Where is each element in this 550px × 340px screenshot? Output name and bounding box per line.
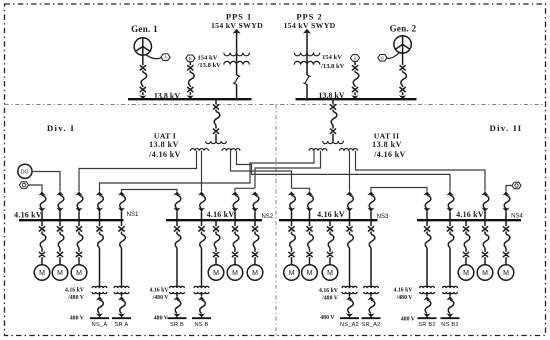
diesel generator DG — [18, 164, 32, 178]
wire small source to NS4 — [506, 186, 512, 192]
svg-text:Div. I: Div. I — [47, 123, 75, 133]
svg-text:4.16 kV: 4.16 kV — [456, 210, 484, 219]
bus 13.8 kV unit 2 — [296, 98, 417, 100]
motor feeder M on NS3 at x=291.5 — [284, 220, 300, 280]
motor feeder M on NS4 at x=466 — [458, 220, 474, 280]
unit aux transformer UAT I drop — [213, 98, 220, 141]
svg-text:SR B: SR B — [170, 322, 184, 328]
bus NS1 4.16 kV — [19, 219, 124, 221]
svg-text:UAT II: UAT II — [374, 131, 400, 140]
incoming breaker drop NS1-1 — [38, 192, 46, 221]
svg-text:480 V: 480 V — [154, 315, 169, 321]
svg-text:4.16 kV: 4.16 kV — [207, 210, 235, 219]
svg-text:13.8 kV: 13.8 kV — [372, 140, 402, 149]
LV transformer feeder SR A — [112, 220, 131, 328]
svg-text:4.16 kV: 4.16 kV — [149, 287, 169, 293]
wire UAT II secondary a to NS1 — [100, 151, 315, 192]
exciter A of G1 — [146, 54, 171, 61]
svg-text:Gen. 1: Gen. 1 — [131, 24, 158, 34]
generator G1 breaker leg to bus — [139, 55, 147, 99]
bus NS4 4.16 kV — [417, 219, 521, 221]
svg-text:480 V: 480 V — [401, 316, 416, 322]
generator G2 breaker leg to bus — [399, 53, 407, 99]
tie wire NS3 to NS4 — [371, 188, 427, 192]
motor feeder M on NS1 at x=60 — [52, 220, 68, 280]
svg-text:4.16 kV: 4.16 kV — [14, 210, 42, 219]
bus NS2 4.16 kV — [166, 219, 262, 221]
wire NS2 standby bracket — [235, 188, 255, 191]
generator G1 — [134, 38, 151, 55]
svg-text:UAT I: UAT I — [154, 131, 176, 140]
wire UAT I secondary a to NS2 — [201, 151, 203, 192]
wire UAT II secondary b to NS3 — [349, 151, 351, 192]
svg-text:13.8 kV: 13.8 kV — [318, 91, 344, 100]
svg-text:NS_A2: NS_A2 — [340, 322, 359, 328]
incoming breaker drop NS1-5 — [118, 192, 126, 221]
motor feeder M on NS4 at x=506 — [498, 220, 514, 280]
incoming breaker drop NS4-2 — [446, 192, 454, 221]
incoming breaker drop NS1-4 — [96, 192, 104, 221]
bus 13.8 kV unit 1 — [128, 98, 252, 100]
svg-text:/13.8 kV: /13.8 kV — [197, 62, 222, 69]
incoming breaker drop NS2-4 — [251, 192, 259, 221]
LV transformer feeder SR B — [168, 220, 187, 328]
incoming breaker drop NS4-3 — [481, 192, 489, 221]
svg-text:4.16 kV: 4.16 kV — [393, 287, 413, 293]
small source M (right) — [512, 182, 521, 189]
LV transformer feeder NS_A2 — [340, 220, 359, 328]
svg-text:B: B — [381, 55, 384, 60]
svg-text:/4.16 kV: /4.16 kV — [373, 150, 406, 159]
incoming breaker drop NS2-2 — [198, 192, 206, 221]
svg-text:/13.8 kV: /13.8 kV — [320, 63, 345, 70]
svg-text:A: A — [164, 55, 167, 60]
wire UAT II secondary a to NS2 — [255, 151, 321, 189]
incoming breaker drop NS3-2 — [306, 192, 314, 221]
svg-text:/480 V: /480 V — [67, 295, 85, 301]
tie wire NS1 to NS2 — [122, 190, 178, 192]
svg-text:SR A: SR A — [115, 322, 129, 328]
LV transformer feeder SR_A2 — [361, 220, 380, 328]
UAT I windings — [191, 141, 241, 151]
main transformer T2 feeder to switchyard — [294, 29, 320, 101]
unit aux transformer UAT II drop — [330, 98, 337, 141]
svg-text:Div. II: Div. II — [489, 123, 522, 133]
svg-text:Gen. 2: Gen. 2 — [390, 24, 417, 34]
svg-text:NS1: NS1 — [127, 212, 139, 218]
incoming breaker drop NS1-2 — [56, 192, 64, 221]
wire UAT I secondary b to NS4 — [237, 151, 451, 192]
svg-text:154 kV: 154 kV — [198, 55, 218, 62]
generator G2 — [394, 36, 411, 53]
svg-text:B: B — [189, 56, 192, 61]
incoming breaker drop NS3-3 — [346, 192, 354, 221]
incoming breaker drop NS3-1 — [288, 192, 296, 221]
motor feeder M on NS2 at x=235 — [227, 220, 243, 280]
wire UAT I secondary b to NS3 — [231, 151, 292, 189]
wire NS3 standby bracket — [292, 188, 310, 191]
LV transformer feeder NS_A — [90, 220, 109, 328]
svg-text:480 V: 480 V — [70, 315, 85, 321]
svg-text:/4.16 kV: /4.16 kV — [148, 150, 181, 159]
svg-text:154 kV SWYD: 154 kV SWYD — [283, 21, 335, 30]
svg-text:13.8 kV: 13.8 kV — [149, 140, 179, 149]
UAT II windings — [309, 141, 358, 151]
incoming breaker drop NS4-4 — [502, 192, 510, 221]
svg-text:/480 V: /480 V — [396, 295, 414, 301]
motor feeder M on NS2 at x=255 — [247, 220, 263, 280]
wire UAT I secondary a to NS1 — [79, 151, 197, 192]
motor feeder M on NS3 at x=330 — [322, 220, 338, 280]
motor feeder M on NS3 at x=309.5 — [302, 220, 318, 280]
svg-text:4.16 kV: 4.16 kV — [65, 287, 85, 293]
LV transformer feeder NS B2 — [441, 220, 460, 328]
station source B 154 kV/13.8 kV — [186, 55, 195, 99]
svg-text:DG: DG — [21, 169, 29, 175]
motor feeder M on NS1 at x=79 — [71, 220, 87, 280]
svg-text:SR_A2: SR_A2 — [361, 322, 380, 328]
svg-text:4.16 kV: 4.16 kV — [317, 210, 345, 219]
svg-text:NS B: NS B — [194, 322, 208, 328]
incoming breaker drop NS2-3 — [231, 192, 239, 221]
svg-text:154 kV: 154 kV — [322, 54, 342, 61]
svg-text:SR B2: SR B2 — [418, 322, 435, 328]
svg-text:480 V: 480 V — [320, 315, 335, 321]
svg-text:NS_A: NS_A — [92, 322, 108, 328]
svg-text:PPS 1: PPS 1 — [226, 11, 252, 21]
svg-text:PPS 2: PPS 2 — [296, 11, 322, 21]
bus NS3 4.16 kV — [279, 219, 378, 221]
station source A 154 kV/13.8 kV (right) — [350, 55, 359, 99]
svg-text:NS3: NS3 — [377, 214, 389, 220]
svg-text:/480 V: /480 V — [321, 295, 339, 301]
incoming breaker drop NS1-3 — [75, 192, 83, 221]
wire small source to NS1 — [29, 185, 42, 192]
motor feeder M on NS1 at x=42 — [34, 220, 50, 280]
motor feeder M on NS2 at x=216 — [208, 220, 224, 280]
small source M (left) — [19, 182, 28, 189]
wire DG to NS1 — [32, 172, 60, 192]
svg-text:NS2: NS2 — [261, 214, 273, 220]
motor feeder M on NS4 at x=485 — [477, 220, 493, 280]
LV transformer feeder NS B — [192, 220, 211, 328]
LV transformer feeder SR B2 — [418, 220, 437, 328]
division divider between Div. I and Div. II — [275, 105, 277, 336]
svg-text:NS4: NS4 — [511, 213, 523, 219]
svg-text:A: A — [353, 56, 356, 61]
svg-text:/480 V: /480 V — [152, 295, 170, 301]
svg-text:4.16 kV: 4.16 kV — [319, 288, 339, 294]
exciter B of G2 — [378, 52, 400, 61]
section divider between switchyard level and distribution level — [5, 104, 546, 106]
incoming breaker drop NS4-1 — [423, 192, 431, 221]
svg-text:13.8 kV: 13.8 kV — [154, 91, 180, 100]
svg-text:NS B2: NS B2 — [441, 322, 458, 328]
incoming breaker drop NS2-1 — [173, 192, 181, 221]
incoming breaker drop NS3-4 — [367, 192, 375, 221]
main transformer T1 feeder to switchyard — [224, 29, 250, 101]
svg-text:154 kV SWYD: 154 kV SWYD — [211, 21, 263, 30]
wire UAT II secondary b to NS4 — [356, 151, 486, 192]
